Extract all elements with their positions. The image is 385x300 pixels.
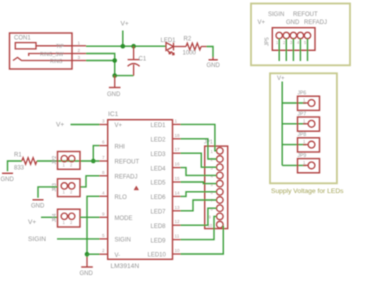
pin header JP5 <box>265 28 316 51</box>
svg-text:REFOUT: REFOUT <box>115 160 140 166</box>
pin LED4 (16) <box>151 162 181 173</box>
svg-text:MODE: MODE <box>115 216 133 222</box>
wire JP5 pin2 stub <box>285 39 287 61</box>
wire LED3 to JP1-3 <box>181 153 217 167</box>
svg-text:1: 1 <box>63 190 66 195</box>
svg-text:REFADJ: REFADJ <box>115 175 138 181</box>
jumper JP4 <box>52 209 80 227</box>
svg-text:1: 1 <box>63 163 66 168</box>
pin LED1 (1) <box>151 118 181 129</box>
svg-text:SIGIN: SIGIN <box>268 12 284 18</box>
svg-text:RLO: RLO <box>115 195 128 201</box>
svg-text:LED7: LED7 <box>151 210 167 216</box>
node SIGIN <box>28 236 100 243</box>
pin REFADJ (8) <box>100 170 138 181</box>
wire LED6 to JP1-6 <box>181 192 217 197</box>
svg-text:1: 1 <box>63 220 66 225</box>
pin RHI (6) <box>100 140 126 151</box>
ground under R2 <box>207 57 221 69</box>
pin LED3 (17) <box>151 147 181 158</box>
svg-text:15: 15 <box>175 176 181 181</box>
jumper JP8 <box>298 132 320 152</box>
svg-text:8: 8 <box>102 170 105 175</box>
svg-text:LED3: LED3 <box>151 152 167 158</box>
jumper JP9 <box>298 153 320 173</box>
node GND label JP5 <box>286 20 300 26</box>
svg-text:1: 1 <box>211 149 214 154</box>
svg-text:CON1: CON1 <box>14 36 31 42</box>
svg-text:LED6: LED6 <box>151 195 167 201</box>
svg-text:4: 4 <box>211 174 214 179</box>
wire R2 to ground <box>207 47 214 58</box>
svg-text:2: 2 <box>70 220 73 225</box>
svg-text:4: 4 <box>297 40 300 45</box>
wire REFOUT net <box>37 160 100 162</box>
svg-text:9: 9 <box>102 211 105 216</box>
wire to C1 bottom <box>112 44 136 78</box>
svg-text:TIP: TIP <box>56 44 64 50</box>
svg-text:2: 2 <box>102 248 105 253</box>
ground at JP3 <box>31 200 45 210</box>
wire RING net <box>86 58 117 63</box>
pin SIGIN (5) <box>100 233 131 244</box>
wire LED9 to JP1-9 <box>181 216 217 239</box>
svg-text:V-: V- <box>115 253 121 259</box>
svg-text:LED4: LED4 <box>151 166 167 172</box>
svg-text:1: 1 <box>303 139 306 144</box>
ground at R1 <box>1 161 22 183</box>
wire to JP7 <box>282 123 306 125</box>
svg-text:1: 1 <box>303 118 306 123</box>
frame signal breakout <box>251 4 350 66</box>
LED LED1 <box>161 38 187 55</box>
op-amp IC1 LM3914N body <box>108 111 173 270</box>
svg-text:13: 13 <box>175 205 181 210</box>
svg-text:LED8: LED8 <box>151 224 167 230</box>
wire LED5 to JP1-5 <box>181 182 217 184</box>
svg-text:V+: V+ <box>258 20 266 26</box>
svg-text:1: 1 <box>78 41 81 46</box>
wire LED10 to JP1-10 <box>181 226 224 254</box>
svg-text:JP5: JP5 <box>265 37 271 46</box>
svg-text:LED10: LED10 <box>148 253 167 259</box>
svg-text:18: 18 <box>175 133 181 138</box>
svg-text:LED5: LED5 <box>151 181 167 187</box>
svg-text:17: 17 <box>175 147 181 152</box>
node SIGIN label JP5 <box>268 12 284 18</box>
svg-text:C1: C1 <box>139 57 147 63</box>
svg-text:REFOUT: REFOUT <box>293 12 318 18</box>
svg-text:5: 5 <box>102 233 105 238</box>
pin LED10 (10) <box>148 248 181 259</box>
pin LED5 (15) <box>151 176 181 187</box>
svg-text:SIGIN: SIGIN <box>115 238 131 244</box>
svg-text:RHI: RHI <box>115 144 126 150</box>
svg-text:5: 5 <box>304 40 307 45</box>
pin LED7 (13) <box>151 205 181 216</box>
svg-text:REFADJ: REFADJ <box>304 20 327 26</box>
svg-text:10: 10 <box>175 248 181 253</box>
node REFOUT label JP5 <box>293 12 318 18</box>
svg-text:GND: GND <box>207 63 221 69</box>
wire JP5 pin4 stub <box>299 39 301 61</box>
pin V+ (3) <box>100 119 123 130</box>
svg-text:JP4: JP4 <box>52 213 58 222</box>
jumper JP3 <box>52 179 80 197</box>
svg-text:GND: GND <box>80 271 94 277</box>
pin RLO (4) <box>100 190 128 201</box>
wire TIP net <box>86 45 166 47</box>
node V+ top <box>121 21 129 49</box>
pin LED9 (11) <box>151 234 181 245</box>
svg-text:11: 11 <box>175 234 180 239</box>
svg-text:2: 2 <box>283 40 286 45</box>
jumper JP7 <box>298 111 320 131</box>
svg-text:3: 3 <box>102 119 105 124</box>
pin V- (2) <box>100 248 121 259</box>
ground under C1 <box>107 76 121 98</box>
svg-text:RING_SW: RING_SW <box>40 52 64 58</box>
svg-text:V+: V+ <box>121 21 129 28</box>
svg-text:IC1: IC1 <box>108 111 119 118</box>
svg-text:9: 9 <box>209 215 212 220</box>
node V+ in LED supply box <box>277 76 285 165</box>
svg-text:R1: R1 <box>14 152 22 158</box>
wire LED4 to JP1-4 <box>181 168 217 176</box>
jumper JP6 <box>298 91 320 111</box>
svg-text:GND: GND <box>107 92 121 98</box>
wire to JP8 <box>282 144 306 146</box>
svg-text:LED9: LED9 <box>151 238 167 244</box>
svg-text:2: 2 <box>70 163 73 168</box>
node V+ label JP5 <box>258 20 266 26</box>
node V+ at IC <box>56 121 100 128</box>
wire RING_SW net <box>86 54 115 76</box>
wire LED2 to JP1-2 <box>181 139 217 159</box>
wire JP5 pin1 stub <box>278 39 280 61</box>
svg-text:1: 1 <box>303 160 306 165</box>
wire to JP9 <box>282 164 306 166</box>
svg-text:14: 14 <box>175 190 181 195</box>
wire JP5 pin5 stub <box>307 39 309 61</box>
svg-text:3: 3 <box>290 40 293 45</box>
wire to JP6 <box>282 102 306 104</box>
wire JP3 to ground <box>38 187 58 198</box>
svg-text:16: 16 <box>175 162 181 167</box>
wire LED8 to JP1-8 <box>181 208 217 225</box>
wire RLO to V- and ground <box>85 196 100 257</box>
svg-text:GND: GND <box>286 20 300 26</box>
wire JP5 pin3 stub <box>292 39 294 61</box>
resistor R2 <box>183 37 207 57</box>
connector CON1 <box>10 33 87 69</box>
svg-text:RING: RING <box>50 59 63 65</box>
capacitor C1 <box>128 46 147 75</box>
svg-text:3: 3 <box>78 55 81 60</box>
node V+ at JP4 <box>28 217 58 226</box>
svg-text:GND: GND <box>1 177 15 183</box>
pin REFOUT (7) <box>100 155 140 166</box>
pin MODE (9) <box>100 211 133 222</box>
svg-text:833: 833 <box>14 165 25 171</box>
svg-text:1000: 1000 <box>183 51 197 57</box>
svg-text:2: 2 <box>78 48 81 53</box>
svg-text:12: 12 <box>175 219 181 224</box>
wire LED1 to JP1-1 <box>181 124 217 150</box>
pin LED8 (12) <box>151 219 181 230</box>
frame supply voltage for LEDs <box>270 73 344 195</box>
svg-text:7: 7 <box>102 155 105 160</box>
resistor R1 <box>14 152 37 171</box>
svg-text:1: 1 <box>175 118 178 123</box>
svg-text:JP2: JP2 <box>52 156 58 165</box>
wire MODE net <box>80 216 100 218</box>
svg-text:4: 4 <box>102 190 105 195</box>
svg-text:6: 6 <box>102 140 105 145</box>
svg-text:1: 1 <box>303 98 306 103</box>
svg-text:Supply Voltage for LEDs: Supply Voltage for LEDs <box>271 188 344 195</box>
svg-text:GND: GND <box>31 203 45 209</box>
wire LED7 to JP1-7 <box>181 200 217 211</box>
pin LED2 (18) <box>151 133 181 144</box>
svg-text:SIGIN: SIGIN <box>28 236 46 243</box>
node REFADJ label JP5 <box>304 20 327 26</box>
wire RHI to REFOUT <box>91 146 100 164</box>
pin header JP1 <box>204 140 228 229</box>
jumper JP2 <box>52 152 80 170</box>
svg-text:LED2: LED2 <box>151 138 167 144</box>
svg-text:2: 2 <box>70 190 73 195</box>
pin LED6 (14) <box>151 190 181 201</box>
svg-text:LM3914N: LM3914N <box>111 263 140 270</box>
svg-text:V+: V+ <box>28 219 36 226</box>
svg-text:R2: R2 <box>184 37 192 43</box>
svg-text:V+: V+ <box>115 123 123 129</box>
svg-text:V+: V+ <box>56 121 64 128</box>
ground at V- <box>80 257 94 277</box>
svg-text:LED1: LED1 <box>151 123 167 129</box>
wire REFADJ net <box>80 176 100 187</box>
svg-text:V+: V+ <box>277 76 285 82</box>
